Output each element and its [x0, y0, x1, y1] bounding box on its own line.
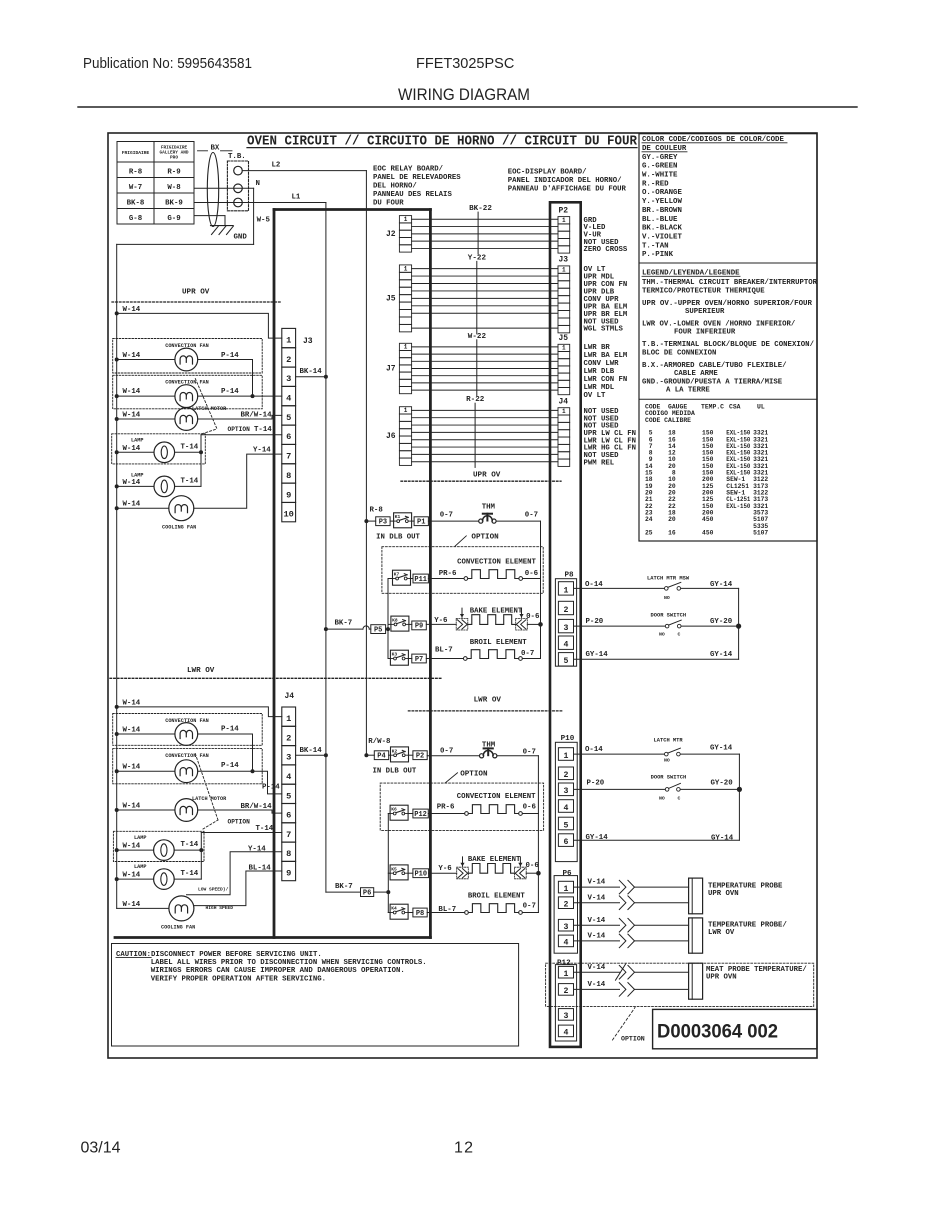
svg-text:LABEL ALL WIRES PRIOR TO DISCO: LABEL ALL WIRES PRIOR TO DISCONNECTION W… [151, 959, 427, 967]
connector J2 (relay board) [386, 216, 412, 253]
svg-text:J3: J3 [303, 337, 313, 346]
wire L1 [194, 202, 326, 204]
svg-text:BR/W-14: BR/W-14 [241, 412, 273, 420]
svg-text:BK.-BLACK: BK.-BLACK [642, 225, 682, 233]
svg-text:1: 1 [286, 336, 291, 346]
svg-text:CONVECTION ELEMENT: CONVECTION ELEMENT [457, 793, 536, 801]
svg-text:T-14: T-14 [181, 477, 199, 485]
connector P8 (relay) [413, 908, 427, 917]
connector P7 [412, 654, 427, 663]
svg-text:PR-6: PR-6 [437, 803, 455, 811]
svg-text:P-20: P-20 [587, 780, 605, 788]
svg-text:0-7: 0-7 [523, 748, 536, 756]
svg-text:OPTION: OPTION [460, 770, 488, 778]
relay K7 [393, 570, 414, 585]
part number box [653, 1009, 817, 1048]
svg-text:UPR OV.-UPPER OVEN/HORNO SUPER: UPR OV.-UPPER OVEN/HORNO SUPERIOR/FOUR [642, 300, 813, 308]
wire bundle J7 to J5 [412, 347, 558, 390]
svg-text:1: 1 [562, 408, 566, 415]
temperature probe upper oven [689, 878, 783, 914]
wire GY-14 from latch switch [681, 581, 739, 589]
temperature probe lower oven [689, 918, 788, 953]
svg-text:R.-RED: R.-RED [642, 180, 669, 188]
broil element lower [427, 903, 538, 915]
svg-text:5107: 5107 [753, 530, 768, 537]
svg-text:PANNEAU D'AFFICHAGE DU FOUR: PANNEAU D'AFFICHAGE DU FOUR [508, 186, 627, 194]
wire BK-7 to P6 [326, 883, 361, 892]
svg-text:2: 2 [564, 987, 569, 996]
svg-text:T-14: T-14 [181, 443, 199, 451]
svg-text:1: 1 [404, 344, 408, 351]
wire code table FRIGIDAIRE [117, 142, 194, 225]
relay K6 [390, 805, 413, 820]
wire GY-20 from door lower [680, 780, 739, 790]
latch motor micro switch [647, 575, 690, 601]
svg-text:W-14: W-14 [123, 479, 141, 487]
svg-text:LWR DLB: LWR DLB [584, 368, 615, 376]
connector P10 (display) [555, 735, 577, 862]
terminal block T.B. [227, 153, 248, 211]
svg-text:K5: K5 [391, 866, 397, 872]
svg-text:C: C [678, 631, 681, 637]
svg-text:W-14: W-14 [123, 727, 141, 735]
svg-text:K4: K4 [391, 906, 397, 912]
svg-text:G-9: G-9 [167, 215, 180, 223]
svg-text:P10: P10 [561, 735, 575, 743]
wire 0-7 to THM lower [427, 748, 478, 756]
wire bundle J6 to J4 [412, 410, 558, 461]
svg-text:T-14: T-14 [254, 426, 272, 434]
label EOC relay board [373, 166, 461, 208]
svg-text:Publication No: 5995643581: Publication No: 5995643581 [83, 56, 252, 72]
svg-text:BK-7: BK-7 [335, 883, 353, 891]
svg-text:1: 1 [286, 714, 291, 724]
meat probe [689, 963, 808, 999]
svg-text:P3: P3 [379, 519, 387, 527]
wire latch vertical join upper [736, 588, 741, 659]
svg-text:COOLING FAN: COOLING FAN [161, 925, 195, 931]
svg-text:K6: K6 [391, 807, 397, 813]
svg-text:W-14: W-14 [123, 306, 141, 314]
svg-text:9: 9 [286, 869, 291, 879]
svg-text:0-7: 0-7 [440, 748, 453, 756]
svg-text:0-6: 0-6 [526, 862, 540, 870]
svg-text:BK-8: BK-8 [127, 200, 145, 208]
svg-text:2: 2 [564, 771, 569, 780]
svg-text:J5: J5 [386, 294, 396, 303]
wire W-14 row 1 lower [115, 699, 282, 716]
main diagram border [108, 133, 817, 1058]
cooling fan lower [117, 896, 196, 931]
wire BK-7 to P5 [324, 620, 371, 632]
svg-text:UL: UL [757, 404, 765, 411]
svg-text:FFET3025PSC: FFET3025PSC [416, 56, 514, 72]
svg-text:J6: J6 [386, 432, 396, 441]
svg-text:W-14: W-14 [123, 388, 141, 396]
svg-text:W-14: W-14 [123, 803, 141, 811]
svg-text:LWR MDL: LWR MDL [584, 384, 615, 392]
bake element lower [429, 857, 541, 879]
lamp 2 lower [115, 864, 202, 889]
svg-text:DU FOUR: DU FOUR [373, 200, 404, 208]
connector P2 (relay) [413, 751, 427, 760]
connector J6 (relay board) [386, 407, 412, 466]
svg-text:DEL HORNO/: DEL HORNO/ [373, 183, 417, 191]
svg-text:10: 10 [283, 510, 293, 520]
connector J5 (relay board) [386, 265, 412, 332]
relay K2 [389, 747, 413, 762]
svg-text:O.-ORANGE: O.-ORANGE [642, 189, 682, 197]
svg-text:Y-6: Y-6 [438, 865, 452, 873]
svg-text:P10: P10 [414, 871, 427, 879]
connector P2 (display board) [558, 206, 570, 253]
svg-text:L1: L1 [292, 194, 301, 202]
option label lower elements [445, 770, 488, 783]
wire V-14 meat probe row 1 [574, 964, 689, 980]
svg-text:GY-14: GY-14 [586, 651, 609, 659]
svg-text:WIRING DIAGRAM: WIRING DIAGRAM [398, 86, 530, 104]
EOC display board outline [550, 202, 581, 1047]
wire 0-7 to THM upper [428, 512, 478, 522]
svg-text:2: 2 [286, 733, 291, 743]
wire N to W-5 [194, 187, 254, 189]
svg-text:SUPERIEUR: SUPERIEUR [685, 308, 725, 316]
svg-text:25: 25 [645, 530, 653, 537]
svg-text:20: 20 [668, 516, 676, 523]
svg-text:EXL-150: EXL-150 [726, 503, 750, 510]
svg-text:NO: NO [664, 758, 670, 764]
svg-text:1: 1 [404, 407, 408, 414]
svg-text:8: 8 [286, 849, 291, 859]
svg-text:BK-14: BK-14 [300, 368, 323, 376]
color code legend box [639, 134, 817, 541]
svg-text:DOOR SWITCH: DOOR SWITCH [651, 775, 687, 781]
lamp 1 lower [113, 831, 204, 861]
latch motor switch lower [654, 738, 684, 764]
svg-text:T.-TAN: T.-TAN [642, 242, 669, 250]
svg-text:LATCH MOTOR: LATCH MOTOR [192, 796, 227, 802]
signal labels J3 [584, 266, 628, 334]
dashed divider LWR OV center [408, 710, 563, 712]
svg-text:FOUR INFERIEUR: FOUR INFERIEUR [674, 329, 736, 337]
svg-text:7: 7 [286, 830, 291, 840]
svg-text:03/14: 03/14 [81, 1140, 121, 1157]
signal labels P2 [584, 217, 628, 254]
svg-text:4: 4 [286, 772, 291, 782]
svg-text:W-14: W-14 [123, 501, 141, 509]
thermal breaker THM lower [480, 742, 497, 758]
svg-text:BROIL ELEMENT: BROIL ELEMENT [470, 639, 528, 647]
svg-text:GY-14: GY-14 [710, 745, 733, 753]
connector J7 (relay board) [386, 343, 412, 393]
color code list [642, 154, 682, 259]
wire BK-14 lower [296, 747, 328, 757]
svg-text:P-14: P-14 [221, 762, 239, 770]
signal labels J5 [584, 344, 628, 400]
lamp 2 upper [115, 473, 201, 497]
svg-text:1: 1 [564, 752, 569, 761]
svg-text:LWR OV: LWR OV [474, 697, 502, 705]
svg-text:CABLE ARME: CABLE ARME [674, 370, 718, 378]
svg-text:P-14: P-14 [221, 726, 239, 734]
svg-text:BL.-BLUE: BL.-BLUE [642, 216, 678, 224]
wire GY-14 from latch lower [681, 745, 740, 755]
svg-text:BAKE ELEMENT: BAKE ELEMENT [468, 856, 521, 864]
svg-text:K1: K1 [395, 514, 401, 520]
svg-text:CONV LWR: CONV LWR [584, 360, 620, 368]
svg-text:4: 4 [564, 641, 569, 650]
svg-text:P6: P6 [363, 889, 371, 897]
svg-text:R/W-8: R/W-8 [368, 738, 391, 746]
svg-text:ZERO CROSS: ZERO CROSS [584, 246, 628, 254]
svg-text:LATCH MOTOR: LATCH MOTOR [192, 406, 227, 412]
svg-text:0-7: 0-7 [525, 512, 538, 520]
svg-text:V-14: V-14 [588, 981, 606, 989]
svg-text:J2: J2 [386, 230, 396, 239]
svg-text:3: 3 [564, 787, 569, 796]
wire latch vertical join lower [737, 754, 742, 840]
option dashed box upper [382, 547, 543, 594]
wire O-14 latch motor lower [574, 746, 665, 754]
svg-text:DOOR SWITCH: DOOR SWITCH [651, 612, 687, 618]
dashed divider LWR OV left [110, 677, 442, 679]
connector P9 [412, 621, 427, 630]
svg-text:9: 9 [286, 490, 291, 500]
svg-text:BK-9: BK-9 [165, 200, 183, 208]
svg-text:W-7: W-7 [129, 184, 142, 192]
svg-text:C: C [678, 796, 681, 802]
svg-text:V-14: V-14 [588, 933, 606, 941]
svg-text:O-14: O-14 [585, 746, 603, 754]
svg-text:P6: P6 [563, 870, 573, 878]
svg-text:THM: THM [482, 504, 496, 512]
svg-text:3: 3 [564, 624, 569, 633]
convection fan 1 upper [113, 339, 263, 397]
connector P4 [374, 751, 388, 760]
connector P10 (relay) [413, 869, 429, 878]
svg-text:CONVECTION ELEMENT: CONVECTION ELEMENT [457, 559, 536, 567]
svg-text:W.-WHITE: W.-WHITE [642, 172, 678, 180]
connector P11 [413, 574, 428, 583]
svg-text:IN DLB OUT: IN DLB OUT [373, 768, 417, 776]
svg-text:PR-6: PR-6 [439, 570, 457, 578]
svg-text:A LA TERRE: A LA TERRE [666, 387, 710, 395]
connector P6 (display) [554, 870, 577, 953]
svg-text:0-7: 0-7 [440, 512, 453, 520]
svg-text:T.B.: T.B. [228, 153, 246, 161]
wire GY-14 row 5 [574, 651, 739, 659]
svg-text:BR.-BROWN: BR.-BROWN [642, 207, 682, 215]
wire left W-14 bus [116, 244, 118, 908]
svg-text:HIGH SPEED: HIGH SPEED [206, 905, 234, 911]
svg-text:K7: K7 [394, 572, 400, 578]
wire R-8 vertical from L2 [365, 171, 367, 756]
svg-text:4: 4 [564, 939, 569, 948]
svg-text:EOC-DISPLAY BOARD/: EOC-DISPLAY BOARD/ [508, 169, 587, 177]
svg-text:LWR BR: LWR BR [584, 344, 611, 352]
svg-text:VERIFY PROPER OPERATION AFTER: VERIFY PROPER OPERATION AFTER SERVICING. [151, 975, 326, 983]
svg-text:OPTION: OPTION [621, 1036, 645, 1043]
wire Y-14 low speed lower [187, 845, 282, 895]
svg-text:0-6: 0-6 [523, 803, 537, 811]
svg-text:1: 1 [562, 345, 566, 352]
svg-text:LWR OV: LWR OV [187, 667, 215, 675]
svg-text:450: 450 [702, 530, 714, 537]
svg-text:V-14: V-14 [588, 894, 606, 902]
wire lamp T-14 vertical [200, 435, 202, 487]
wire P-20 door switch lower [574, 780, 666, 790]
wire BL-14 high speed lower [194, 864, 282, 911]
connector P6 (relay) [361, 888, 389, 898]
svg-text:P-14: P-14 [221, 388, 239, 396]
svg-text:W-14: W-14 [123, 872, 141, 880]
svg-text:4: 4 [286, 394, 291, 404]
svg-text:P2: P2 [416, 753, 424, 761]
svg-text:BL-7: BL-7 [435, 647, 453, 655]
svg-text:LATCH MTR MSW: LATCH MTR MSW [647, 575, 690, 581]
relay K8 [388, 616, 412, 631]
gauge table [645, 404, 768, 537]
svg-text:BROIL ELEMENT: BROIL ELEMENT [468, 893, 526, 901]
wire GY-20 from door switch [681, 618, 738, 626]
latch motor lower [115, 796, 282, 821]
svg-text:6: 6 [286, 811, 291, 821]
svg-text:W-14: W-14 [123, 412, 141, 420]
svg-text:3: 3 [286, 374, 291, 384]
legend text [642, 279, 818, 395]
svg-text:W-8: W-8 [167, 184, 181, 192]
svg-text:OV LT: OV LT [584, 392, 607, 400]
svg-text:LATCH MTR: LATCH MTR [654, 738, 684, 744]
svg-text:P.-PINK: P.-PINK [642, 251, 674, 259]
svg-text:V.-VIOLET: V.-VIOLET [642, 233, 682, 241]
svg-text:2: 2 [564, 606, 569, 615]
dashed divider center UPR OV [401, 480, 561, 482]
wire R-8 junction to P3 [364, 507, 383, 524]
svg-text:GY-14: GY-14 [711, 834, 734, 842]
svg-text:2: 2 [564, 901, 569, 910]
svg-text:IN DLB OUT: IN DLB OUT [376, 534, 420, 542]
svg-text:450: 450 [702, 516, 714, 523]
svg-text:12: 12 [454, 1140, 474, 1157]
armored cable BX [198, 145, 233, 227]
svg-text:GY-14: GY-14 [710, 581, 733, 589]
wire L2 [242, 170, 366, 172]
svg-text:24: 24 [645, 516, 653, 523]
svg-text:K8: K8 [392, 618, 398, 624]
svg-text:P1: P1 [417, 519, 425, 527]
svg-text:NO: NO [659, 796, 665, 802]
connector J4 (display board) [558, 398, 570, 467]
svg-text:UPR OVN: UPR OVN [706, 974, 737, 982]
thermal breaker THM upper [479, 504, 496, 524]
svg-text:O-14: O-14 [585, 581, 603, 589]
svg-text:K3: K3 [392, 652, 398, 658]
svg-text:THM.-THERMAL CIRCUIT BREAKER/I: THM.-THERMAL CIRCUIT BREAKER/INTERRUPTOR [642, 279, 818, 287]
svg-text:TERMICO/PROTECTEUR THERMIQUE: TERMICO/PROTECTEUR THERMIQUE [642, 287, 765, 295]
svg-text:0-7: 0-7 [521, 650, 534, 658]
bake element upper [426, 608, 543, 630]
svg-text:NO: NO [664, 595, 670, 601]
svg-text:N: N [256, 180, 260, 188]
svg-text:P9: P9 [415, 623, 423, 631]
svg-text:Y-6: Y-6 [434, 617, 448, 625]
svg-text:T-14: T-14 [181, 841, 199, 849]
wire P-20 door switch [574, 618, 666, 626]
svg-text:R-9: R-9 [167, 169, 180, 177]
wire THM to bus lower [497, 748, 539, 756]
svg-text:W-14: W-14 [123, 699, 141, 707]
svg-text:J4: J4 [559, 398, 569, 407]
svg-text:OPTION: OPTION [228, 426, 251, 433]
connector P3 [376, 517, 390, 526]
convection fan 2 upper [113, 375, 282, 409]
svg-text:LWR CON FN: LWR CON FN [584, 376, 628, 384]
svg-text:6: 6 [286, 432, 291, 442]
broil element upper [426, 647, 540, 661]
svg-text:EOC RELAY BOARD/: EOC RELAY BOARD/ [373, 166, 444, 174]
svg-text:W-14: W-14 [123, 764, 141, 772]
svg-text:G.-GREEN: G.-GREEN [642, 163, 677, 171]
svg-text:BK-22: BK-22 [469, 205, 492, 213]
svg-text:GND.-GROUND/PUESTA A TIERRA/MI: GND.-GROUND/PUESTA A TIERRA/MISE [642, 378, 783, 386]
wire R/W-8 junction to P4 [364, 738, 391, 757]
svg-text:P7: P7 [415, 656, 423, 664]
svg-text:W-14: W-14 [123, 352, 141, 360]
svg-text:Y.-YELLOW: Y.-YELLOW [642, 198, 682, 206]
svg-text:5: 5 [564, 821, 569, 830]
connector J3 (left) [282, 328, 313, 521]
option leader dashes upper [195, 379, 272, 434]
svg-text:LWR BA ELM: LWR BA ELM [584, 352, 628, 360]
option dashed box meat probe [546, 963, 814, 1042]
svg-text:GY-20: GY-20 [710, 618, 733, 626]
wire element bus lower [537, 756, 539, 913]
svg-text:T.B.-TERMINAL BLOCK/BLOQUE DE: T.B.-TERMINAL BLOCK/BLOQUE DE CONEXION/ [642, 341, 815, 349]
svg-text:4: 4 [564, 804, 569, 813]
wire color tick Y-22 [468, 254, 487, 333]
svg-text:D0003064 002: D0003064 002 [657, 1022, 778, 1043]
svg-text:J3: J3 [559, 256, 569, 265]
wire T-14 option to pin 7 lower [201, 831, 281, 833]
svg-text:CONVECTION FAN: CONVECTION FAN [165, 753, 209, 759]
option dashed box lower [380, 783, 543, 830]
svg-text:W-14: W-14 [123, 901, 141, 909]
convection fan 2 lower [113, 749, 282, 794]
wire K bus lower [386, 814, 390, 913]
svg-text:1: 1 [562, 217, 566, 224]
connector P12 (relay) [413, 809, 428, 818]
connector J4 (left) [282, 692, 296, 881]
svg-text:LWR OV.-LOWER OVEN /HORNO INFE: LWR OV.-LOWER OVEN /HORNO INFERIOR/ [642, 320, 796, 328]
wire bundle J2 to P2 [412, 219, 558, 248]
wire V-14 probe row 1 [574, 879, 689, 894]
svg-text:NO: NO [659, 631, 665, 637]
svg-text:W-5: W-5 [257, 217, 271, 225]
svg-text:R-22: R-22 [466, 396, 485, 404]
option label upper elements [455, 534, 499, 547]
lamp 1 upper [112, 434, 206, 464]
svg-text:0-6: 0-6 [525, 570, 539, 578]
svg-text:1: 1 [564, 885, 569, 894]
svg-text:BK-14: BK-14 [300, 747, 323, 755]
svg-text:GY.-GREY: GY.-GREY [642, 154, 678, 162]
wire color tick W-22 [468, 333, 487, 396]
svg-text:LAMP: LAMP [131, 473, 143, 479]
svg-text:CODE CALIBRE: CODE CALIBRE [645, 417, 691, 424]
wire lamp T-14 vertical lower [200, 832, 202, 879]
svg-text:WGL STMLS: WGL STMLS [584, 326, 624, 334]
